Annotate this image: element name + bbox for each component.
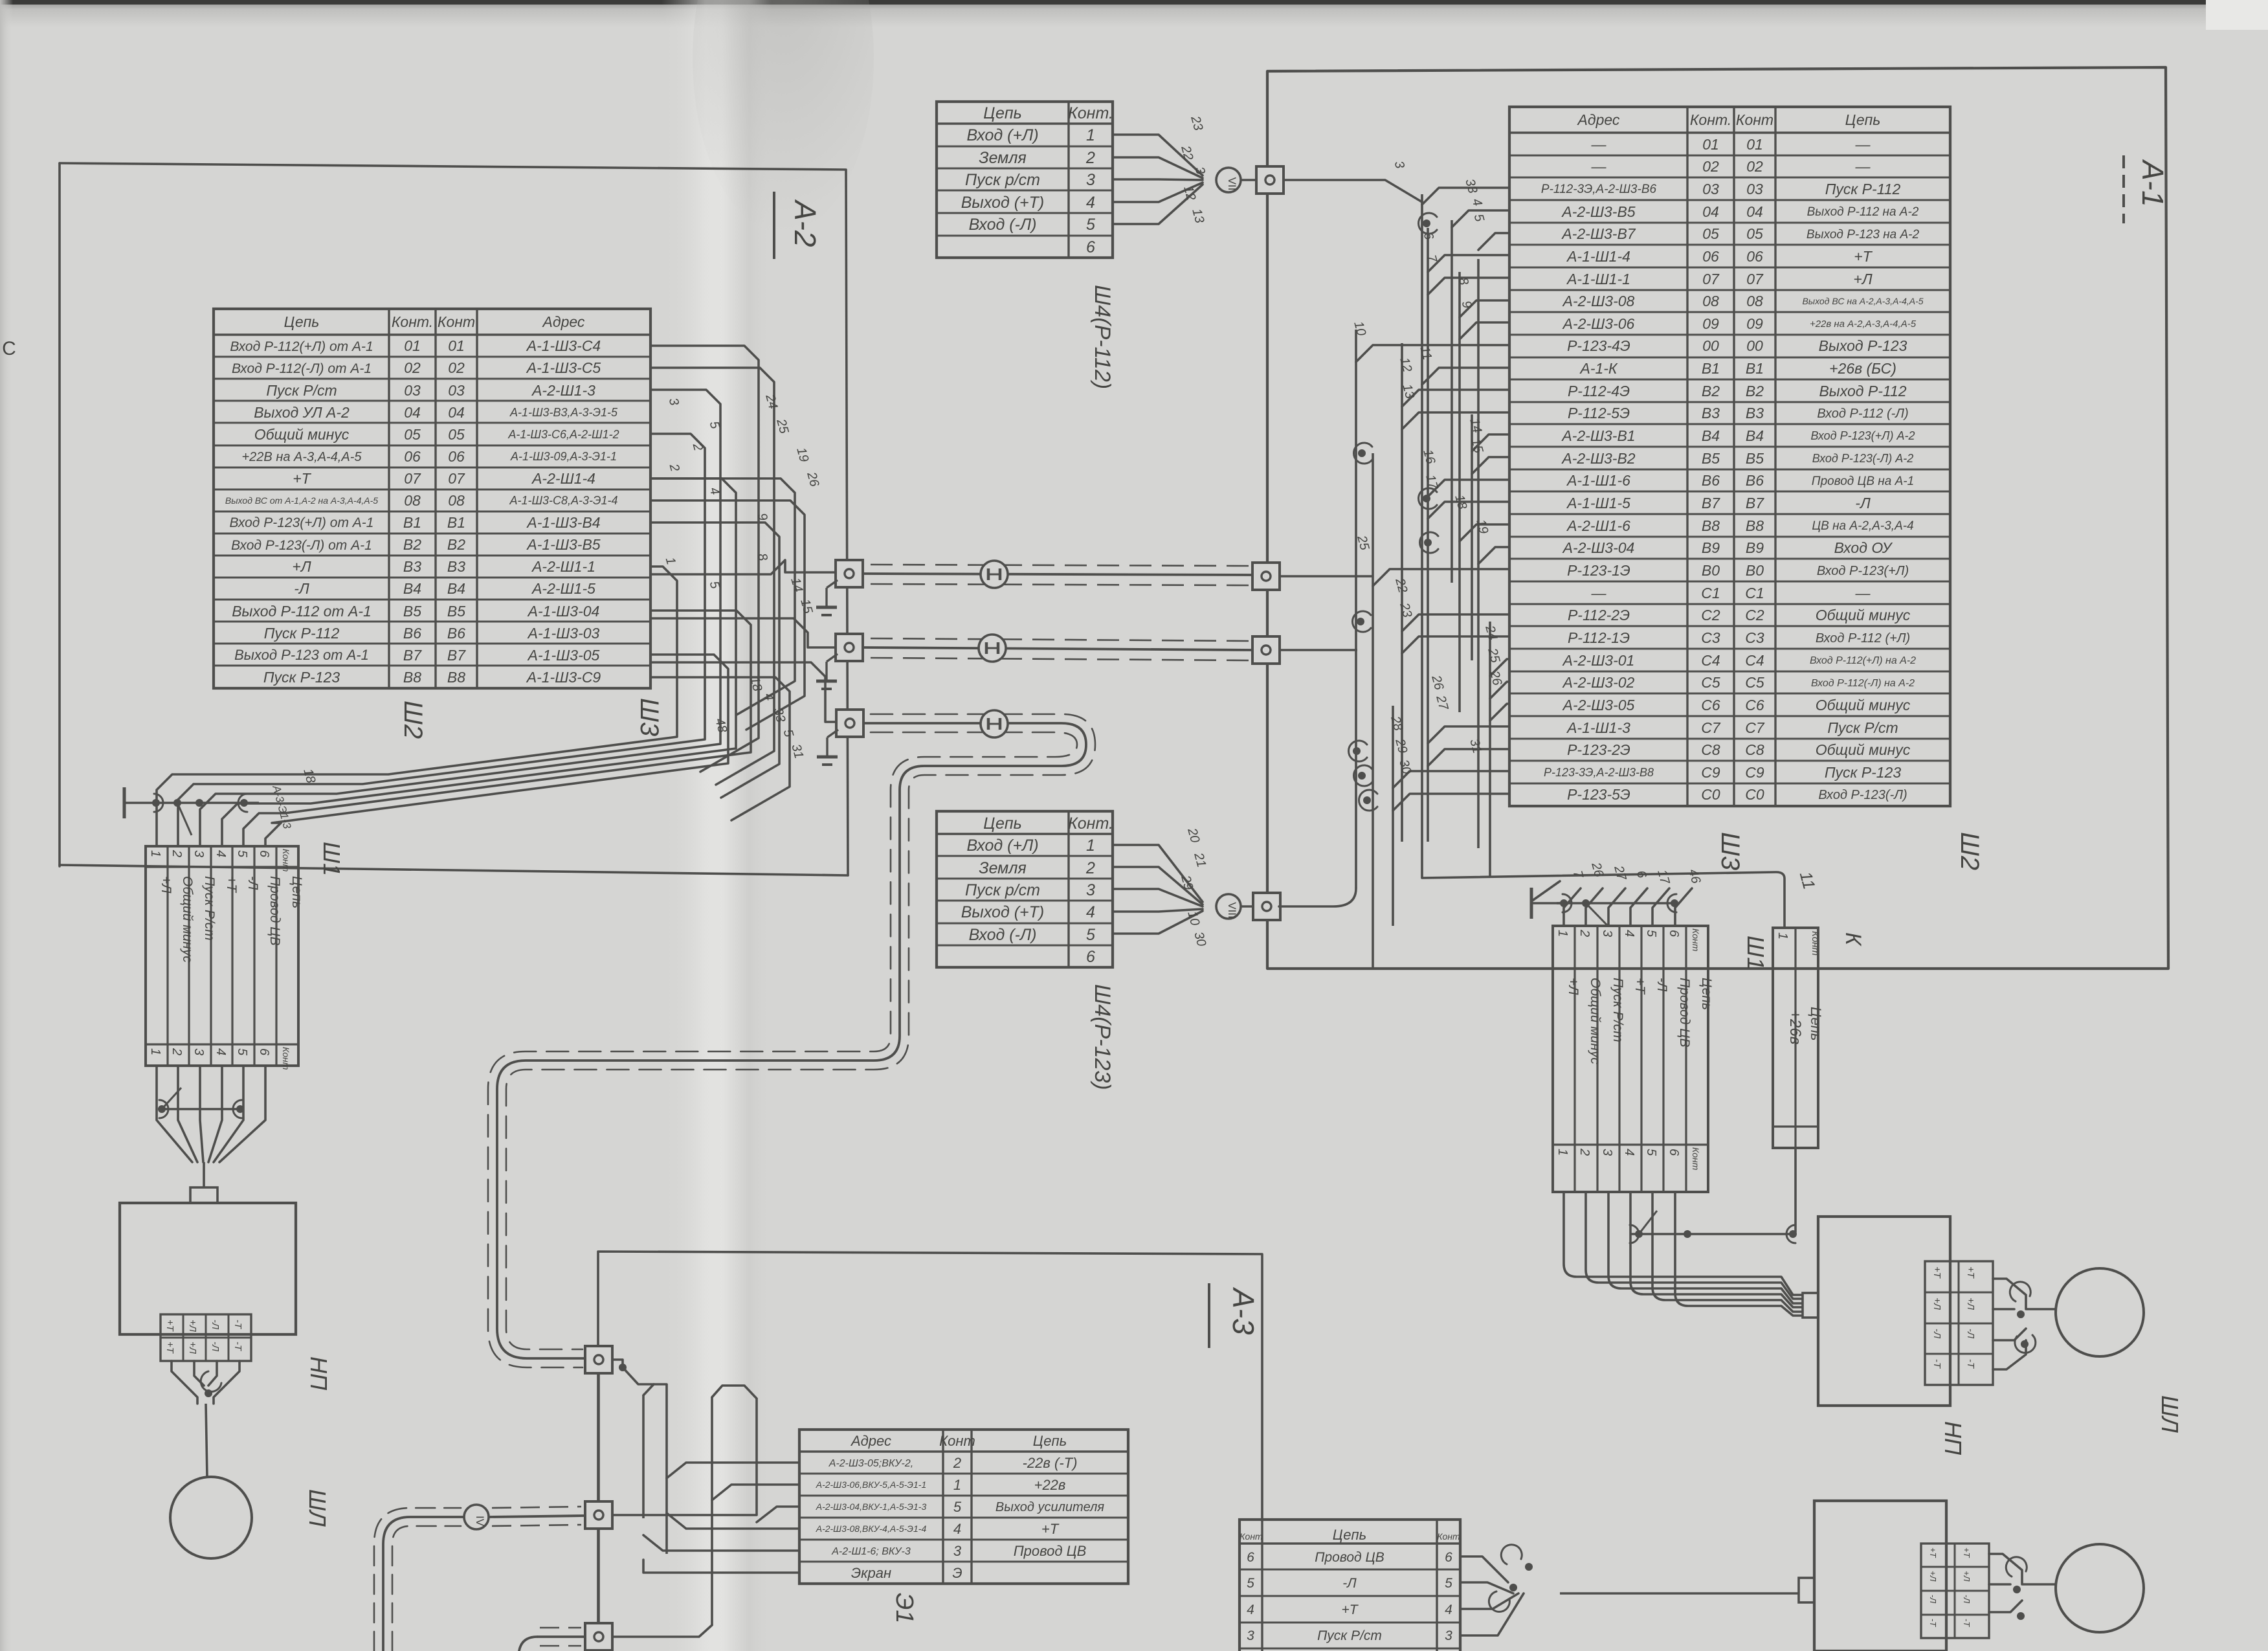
svg-text:А-1-Ш3-05: А-1-Ш3-05: [527, 647, 600, 664]
svg-text:А-1-Ш3-09,А-3-Э1-1: А-1-Ш3-09,А-3-Э1-1: [510, 450, 617, 463]
svg-text:А-1: А-1: [2136, 159, 2170, 207]
svg-text:01: 01: [448, 337, 465, 354]
svg-text:05: 05: [404, 426, 421, 443]
svg-text:+Л: +Л: [1931, 1297, 1942, 1310]
svg-text:6: 6: [1445, 1550, 1452, 1565]
svg-text:07: 07: [448, 470, 465, 487]
svg-text:+Л: +Л: [292, 558, 311, 575]
svg-text:В1: В1: [1746, 360, 1764, 377]
NP box stub (right 1): [1803, 1293, 1818, 1318]
svg-text:Земля: Земля: [979, 859, 1027, 877]
svg-text:ЦВ на А-2,А-3,А-4: ЦВ на А-2,А-3,А-4: [1812, 519, 1913, 533]
svg-text:2: 2: [1577, 1148, 1592, 1156]
svg-text:-Т: -Т: [1931, 1359, 1942, 1369]
svg-text:Р-112-2Э: Р-112-2Э: [1568, 607, 1630, 623]
svg-text:Пуск Р-112: Пуск Р-112: [1825, 181, 1901, 197]
connector square VII on A-1: [1256, 166, 1284, 194]
svg-text:А-1-Ш3-С4: А-1-Ш3-С4: [526, 337, 601, 354]
svg-text:А-1-Ш3-С8,А-3-Э1-4: А-1-Ш3-С8,А-3-Э1-4: [509, 494, 617, 507]
svg-text:-Л: -Л: [1965, 1329, 1976, 1339]
svg-text:А-2-Ш3-08: А-2-Ш3-08: [1562, 293, 1635, 309]
svg-text:4: 4: [953, 1521, 961, 1537]
svg-text:В6: В6: [447, 625, 465, 642]
svg-text:С1: С1: [1745, 585, 1764, 601]
svg-text:В3: В3: [403, 558, 421, 575]
svg-text:А-1-К: А-1-К: [1579, 360, 1618, 377]
svg-text:1: 1: [1086, 837, 1095, 855]
svg-text:Вход (-Л): Вход (-Л): [969, 926, 1037, 944]
svg-text:Ш2: Ш2: [399, 701, 427, 739]
svg-text:Вход Р-112(-Л) от А-1: Вход Р-112(-Л) от А-1: [232, 361, 372, 376]
block A-2 outline: [60, 163, 848, 875]
svg-text:Выход Р-112: Выход Р-112: [1819, 383, 1906, 399]
svg-text:Вход (-Л): Вход (-Л): [969, 216, 1037, 234]
svg-text:В6: В6: [1746, 472, 1764, 489]
svg-text:VIII: VIII: [1226, 902, 1238, 919]
svg-text:Выход Р-123 от А-1: Выход Р-123 от А-1: [234, 647, 369, 663]
svg-text:09: 09: [1746, 315, 1763, 332]
connector table Sh4(R-123): [937, 811, 1113, 967]
svg-text:-Л: -Л: [1928, 1595, 1938, 1603]
svg-text:6: 6: [1086, 948, 1095, 966]
svg-text:Конт: Конт: [438, 313, 475, 330]
svg-text:С6: С6: [1745, 697, 1764, 713]
connector table Sh4(R-112): [937, 102, 1113, 258]
svg-text:Цепь: Цепь: [284, 313, 320, 330]
svg-text:2: 2: [1085, 149, 1095, 167]
svg-text:А-1-Ш1-3: А-1-Ш1-3: [1566, 719, 1630, 736]
wires Sh4(R-123) to coupler VIII: [1113, 845, 1203, 934]
svg-text:А-1-Ш3-С5: А-1-Ш3-С5: [526, 359, 601, 376]
svg-text:07: 07: [1746, 271, 1764, 287]
wires Sh1(A-1) down to NP: [1564, 1192, 1802, 1316]
NP box (right 1): [1818, 1217, 1950, 1406]
svg-text:Выход Р-123: Выход Р-123: [1819, 337, 1907, 354]
jumper with ground on Sh1(A-1): [1531, 888, 1678, 926]
svg-text:04: 04: [1702, 203, 1719, 220]
svg-text:5: 5: [1445, 1576, 1452, 1591]
svg-text:НП: НП: [1940, 1421, 1966, 1455]
svg-text:Провод ЦВ: Провод ЦВ: [1677, 978, 1692, 1047]
connector square run III left: [836, 710, 863, 737]
svg-text:С7: С7: [1701, 719, 1721, 736]
svg-text:+Л: +Л: [187, 1342, 198, 1354]
svg-text:Провод ЦВ: Провод ЦВ: [1315, 1550, 1384, 1565]
svg-text:Ш3: Ш3: [635, 698, 663, 736]
svg-text:C: C: [2, 338, 16, 359]
svg-text:05: 05: [1746, 225, 1763, 242]
svg-text:В7: В7: [1702, 495, 1720, 511]
svg-text:Экран: Экран: [851, 1565, 891, 1581]
NP box stub (left): [190, 1187, 217, 1203]
svg-text:Ш4(Р-112): Ш4(Р-112): [1090, 285, 1115, 389]
connector square V: [585, 1623, 612, 1650]
svg-text:А-2-Ш3-01: А-2-Ш3-01: [1562, 652, 1635, 669]
svg-text:Земля: Земля: [979, 149, 1027, 167]
svg-text:Выход Р-123 на А-2: Выход Р-123 на А-2: [1807, 228, 1920, 241]
svg-text:Пуск р/ст: Пуск р/ст: [965, 171, 1040, 189]
svg-text:4: 4: [1086, 903, 1095, 921]
svg-text:Ш2: Ш2: [1955, 832, 1984, 870]
svg-text:В0: В0: [1702, 562, 1720, 579]
svg-text:3: 3: [953, 1543, 962, 1559]
svg-text:02: 02: [404, 359, 421, 376]
svg-text:07: 07: [1702, 271, 1720, 287]
svg-text:А-2-Ш1-5: А-2-Ш1-5: [531, 580, 595, 597]
svg-text:Вход (+Л): Вход (+Л): [966, 126, 1038, 144]
svg-text:1: 1: [1086, 126, 1095, 144]
svg-text:В9: В9: [1702, 539, 1720, 556]
NP connector grid (right 1): [1925, 1261, 1993, 1385]
svg-text:С2: С2: [1745, 607, 1764, 623]
svg-text:А-2-Ш3-В2: А-2-Ш3-В2: [1561, 450, 1635, 467]
svg-text:Общий минус: Общий минус: [254, 426, 350, 443]
svg-text:ШЛ: ШЛ: [304, 1489, 331, 1527]
svg-text:Выход (+Т): Выход (+Т): [961, 903, 1044, 921]
svg-text:Конт: Конт: [281, 1047, 291, 1070]
label A-1: [2124, 155, 2170, 223]
svg-text:6: 6: [257, 850, 271, 858]
svg-text:Общий минус: Общий минус: [1816, 741, 1911, 758]
svg-text:В3: В3: [1746, 405, 1764, 421]
svg-text:Пуск Р-123: Пуск Р-123: [263, 669, 340, 686]
svg-text:Выход Р-112 от А-1: Выход Р-112 от А-1: [232, 603, 372, 620]
connector table of lower headset: [1240, 1520, 1460, 1651]
svg-text:4: 4: [1622, 930, 1636, 937]
svg-text:+Т: +Т: [293, 470, 311, 487]
svg-text:С9: С9: [1701, 764, 1720, 781]
cable run IV: [374, 1507, 584, 1651]
svg-text:Пуск Р-123: Пуск Р-123: [1825, 764, 1901, 781]
connector square IV: [585, 1501, 612, 1529]
svg-text:5: 5: [1086, 216, 1095, 234]
svg-text:—: —: [1855, 158, 1871, 175]
svg-text:2: 2: [170, 1048, 184, 1055]
connector square run I left: [836, 560, 863, 587]
svg-text:+Л: +Л: [1928, 1571, 1938, 1582]
svg-text:+26в: +26в: [1786, 1010, 1804, 1044]
svg-text:А-1-Ш3-В5: А-1-Ш3-В5: [526, 536, 600, 553]
block A-3 outline: [598, 1252, 1262, 1651]
svg-text:Р-112-4Э: Р-112-4Э: [1568, 383, 1630, 399]
svg-text:В8: В8: [1746, 517, 1764, 534]
svg-text:А-2-Ш3-06: А-2-Ш3-06: [1562, 315, 1635, 332]
wire bundle to NP stub: [203, 1162, 205, 1187]
svg-text:+Т: +Т: [1854, 248, 1873, 265]
svg-text:А-2-Ш3-В1: А-2-Ш3-В1: [1561, 427, 1635, 444]
svg-text:С1: С1: [1701, 585, 1720, 601]
wire run II to A-1: [1280, 649, 1357, 651]
svg-text:-Л: -Л: [210, 1342, 221, 1352]
svg-text:+Т: +Т: [164, 1342, 175, 1354]
coupler III: [981, 710, 1008, 737]
svg-text:Ш3: Ш3: [1716, 832, 1744, 870]
svg-text:Вход Р-123(+Л) от А-1: Вход Р-123(+Л) от А-1: [230, 515, 374, 530]
svg-text:Э: Э: [952, 1565, 962, 1581]
svg-text:В0: В0: [1746, 562, 1764, 579]
svg-text:5: 5: [235, 1048, 249, 1056]
connector table Sh1 of A-1 (rotated): [1553, 926, 1714, 1192]
svg-text:—: —: [1591, 158, 1607, 175]
wire fan from A-2 table to harness verticals and Sh1: [157, 346, 805, 846]
ground at run I left: [816, 580, 838, 615]
svg-text:-Т: -Т: [1928, 1619, 1938, 1627]
svg-text:Р-112-3Э,А-2-Ш3-В6: Р-112-3Э,А-2-Ш3-В6: [1541, 183, 1657, 196]
svg-text:Выход УЛ А-2: Выход УЛ А-2: [254, 404, 350, 421]
harness wires inside A-1: [1356, 188, 1509, 969]
svg-text:С3: С3: [1745, 629, 1764, 646]
connector table Sh3/Sh2 of block A-1: [1509, 107, 1950, 806]
svg-text:В1: В1: [1702, 360, 1720, 377]
svg-text:04: 04: [448, 404, 465, 421]
svg-text:5: 5: [1644, 930, 1658, 938]
svg-text:02: 02: [1702, 158, 1719, 175]
svg-text:1: 1: [953, 1477, 961, 1493]
svg-text:С8: С8: [1745, 741, 1764, 758]
svg-text:1: 1: [148, 850, 162, 857]
connector table E1 of block A-3: [799, 1430, 1128, 1584]
svg-text:Конт.: Конт.: [1690, 111, 1731, 128]
svg-text:+Л: +Л: [1566, 978, 1581, 995]
svg-text:-Л: -Л: [1855, 495, 1871, 511]
svg-text:В4: В4: [1746, 427, 1764, 444]
svg-text:Конт: Конт: [1810, 931, 1821, 956]
cable run II: [863, 638, 1252, 660]
svg-text:Цепь: Цепь: [1699, 978, 1714, 1010]
svg-text:Общий минус: Общий минус: [1816, 607, 1911, 623]
svg-text:Конт.: Конт.: [1068, 814, 1113, 833]
svg-text:С3: С3: [1701, 629, 1720, 646]
cable run V stub: [519, 1628, 584, 1651]
jumper with ground on Sh1(A-2): [124, 787, 259, 835]
svg-text:—: —: [1855, 136, 1871, 153]
svg-text:Цепь: Цепь: [1333, 1527, 1366, 1543]
svg-text:+22в на А-2,А-3,А-4,А-5: +22в на А-2,А-3,А-4,А-5: [1810, 319, 1917, 330]
svg-text:+Т: +Т: [1341, 1602, 1359, 1617]
svg-text:Р-123-4Э: Р-123-4Э: [1567, 337, 1630, 354]
svg-text:Вход Р-112 (+Л): Вход Р-112 (+Л): [1816, 631, 1910, 646]
svg-text:С4: С4: [1701, 652, 1720, 669]
svg-text:Пуск Р/ст: Пуск Р/ст: [1827, 719, 1898, 736]
svg-text:Пуск Р/ст: Пуск Р/ст: [266, 382, 337, 399]
svg-text:6: 6: [257, 1048, 271, 1056]
svg-text:А-2-Ш3-В7: А-2-Ш3-В7: [1561, 225, 1636, 242]
jumper on Sh1(A-2) bottom: [158, 1088, 244, 1118]
svg-text:В2: В2: [1702, 383, 1720, 399]
svg-text:Конт: Конт: [1240, 1531, 1263, 1542]
svg-text:В8: В8: [403, 669, 421, 686]
svg-text:06: 06: [448, 448, 465, 465]
svg-text:-Т: -Т: [1965, 1359, 1976, 1369]
NP connector grid (left): [161, 1314, 251, 1361]
wire ground stem to bus: [1531, 881, 1560, 901]
svg-text:Пуск р/ст: Пуск р/ст: [965, 881, 1040, 899]
svg-text:Вход Р-123(-Л): Вход Р-123(-Л): [1818, 788, 1907, 802]
svg-text:В8: В8: [1702, 517, 1720, 534]
svg-text:06: 06: [1702, 248, 1719, 265]
svg-text:Пуск Р/ст: Пуск Р/ст: [1317, 1628, 1382, 1643]
svg-text:+Л: +Л: [1965, 1297, 1976, 1310]
svg-text:Пуск Р/ст: Пуск Р/ст: [202, 876, 217, 941]
svg-text:Адрес: Адрес: [1577, 111, 1620, 128]
svg-text:+26в (БС): +26в (БС): [1829, 360, 1896, 377]
svg-text:В8: В8: [447, 669, 465, 686]
svg-text:-Л: -Л: [210, 1320, 221, 1330]
svg-text:6: 6: [1667, 930, 1681, 938]
wire square VII to table: [1284, 180, 1422, 202]
svg-text:Вход (+Л): Вход (+Л): [966, 837, 1038, 855]
svg-text:А-1-Ш3-С9: А-1-Ш3-С9: [526, 669, 601, 686]
svg-text:5: 5: [1247, 1576, 1254, 1591]
svg-text:А-1-Ш3-В3,А-3-Э1-5: А-1-Ш3-В3,А-3-Э1-5: [509, 406, 618, 419]
svg-text:-Л: -Л: [1931, 1329, 1942, 1339]
svg-text:-Т: -Т: [232, 1342, 243, 1352]
wire bottom table to NP (right 2): [1560, 1592, 1799, 1595]
svg-text:В3: В3: [1702, 405, 1720, 421]
svg-text:5: 5: [1644, 1149, 1658, 1156]
svg-text:Вход Р-123(-Л) А-2: Вход Р-123(-Л) А-2: [1812, 452, 1914, 465]
svg-text:Конт.: Конт.: [392, 313, 433, 330]
svg-text:01: 01: [404, 337, 421, 354]
svg-text:Провод ЦВ: Провод ЦВ: [1014, 1543, 1087, 1559]
svg-text:01: 01: [1702, 136, 1719, 153]
svg-text:Р-123-1Э: Р-123-1Э: [1567, 562, 1630, 579]
block A-1 outline: [1267, 67, 2168, 969]
svg-text:06: 06: [1746, 248, 1763, 265]
svg-text:В6: В6: [1702, 472, 1720, 489]
svg-text:А-1-Ш3-С6,А-2-Ш1-2: А-1-Ш3-С6,А-2-Ш1-2: [507, 428, 619, 441]
svg-text:Общий минус: Общий минус: [1816, 697, 1911, 713]
svg-text:В5: В5: [1746, 450, 1764, 467]
svg-text:5: 5: [953, 1499, 962, 1515]
svg-text:А-2-Ш3-04: А-2-Ш3-04: [1562, 539, 1635, 556]
svg-text:С8: С8: [1701, 741, 1720, 758]
svg-text:Цепь: Цепь: [289, 876, 304, 908]
svg-text:09: 09: [1702, 315, 1719, 332]
svg-text:4: 4: [1445, 1602, 1452, 1617]
wire run I to A-1: [1280, 575, 1373, 578]
svg-text:+Т: +Т: [1041, 1521, 1060, 1537]
svg-text:В2: В2: [1746, 383, 1764, 399]
svg-text:06: 06: [404, 448, 421, 465]
svg-text:1: 1: [1555, 930, 1570, 937]
wire VIII to A-1: [1241, 905, 1254, 908]
svg-text:Адрес: Адрес: [542, 313, 585, 330]
svg-text:00: 00: [1746, 337, 1763, 354]
vertical link of A-3 squares: [597, 1373, 600, 1501]
connector square run II right: [1252, 636, 1280, 664]
svg-text:В5: В5: [403, 603, 421, 620]
coupler IV: [464, 1505, 489, 1529]
svg-text:6: 6: [1667, 1149, 1681, 1156]
svg-text:Ш4(Р-123): Ш4(Р-123): [1090, 984, 1115, 1090]
svg-text:01: 01: [1746, 136, 1763, 153]
svg-text:В7: В7: [447, 647, 466, 664]
svg-text:—: —: [1591, 585, 1607, 601]
svg-text:С7: С7: [1745, 719, 1765, 736]
shield hooks and dots in A-1 harness: [1349, 213, 1438, 811]
svg-text:3: 3: [1247, 1628, 1254, 1643]
svg-text:+22в: +22в: [1034, 1477, 1066, 1493]
svg-text:С9: С9: [1745, 764, 1764, 781]
NP box (left): [120, 1203, 296, 1334]
fan grid to headset (right 2): [1989, 1554, 2056, 1620]
svg-text:3: 3: [192, 1048, 206, 1055]
svg-text:-Л: -Л: [294, 580, 309, 597]
ground at run III left: [817, 730, 838, 765]
svg-text:А-2-Ш1-1: А-2-Ш1-1: [531, 558, 595, 575]
label A-2: [774, 192, 822, 259]
coupler I: [981, 561, 1008, 588]
svg-text:08: 08: [1746, 293, 1763, 309]
svg-text:4: 4: [1247, 1602, 1254, 1617]
svg-text:Ш1: Ш1: [1742, 936, 1769, 970]
svg-text:Конт: Конт: [1691, 1147, 1701, 1171]
svg-text:4: 4: [214, 850, 228, 857]
harness number labels A-1: [1351, 177, 1504, 776]
headset ShL (left): [170, 1477, 252, 1558]
svg-text:С2: С2: [1701, 607, 1720, 623]
svg-text:Вход Р-112 (-Л): Вход Р-112 (-Л): [1817, 407, 1908, 421]
svg-text:В2: В2: [403, 536, 421, 553]
svg-text:-Л: -Л: [1342, 1576, 1357, 1591]
wires A-3 table to squares: [612, 1360, 799, 1637]
svg-text:А-2: А-2: [788, 199, 822, 247]
svg-text:08: 08: [448, 492, 465, 509]
svg-text:А-2-Ш3-06,ВКУ-5,А-5-Э1-1: А-2-Ш3-06,ВКУ-5,А-5-Э1-1: [816, 1479, 927, 1490]
svg-text:А-2-Ш3-08,ВКУ-4,А-5-Э1-4: А-2-Ш3-08,ВКУ-4,А-5-Э1-4: [816, 1523, 927, 1534]
wire VIII square into A-1: [1279, 888, 1356, 906]
wires Sh1(A-1) up: [1564, 888, 1692, 926]
svg-text:+Т: +Т: [1965, 1266, 1976, 1279]
svg-text:1: 1: [1775, 932, 1790, 939]
svg-text:Ш1: Ш1: [318, 842, 345, 876]
svg-text:НП: НП: [306, 1356, 332, 1391]
svg-text:В5: В5: [1702, 450, 1720, 467]
svg-text:А-1-Ш1-5: А-1-Ш1-5: [1566, 495, 1630, 511]
svg-text:С5: С5: [1745, 674, 1764, 691]
svg-text:Выход ВС на А-2,А-3,А-4,А-5: Выход ВС на А-2,А-3,А-4,А-5: [1802, 296, 1923, 306]
svg-text:-Л: -Л: [1962, 1595, 1972, 1603]
svg-text:+Т: +Т: [1931, 1266, 1942, 1279]
svg-text:02: 02: [1746, 158, 1763, 175]
svg-text:Пуск Р-112: Пуск Р-112: [264, 625, 340, 642]
svg-text:04: 04: [1746, 203, 1763, 220]
wires Sh4(R-112) to coupler VII: [1113, 135, 1203, 224]
svg-text:ШЛ: ШЛ: [2157, 1395, 2183, 1433]
connector square run II left: [836, 634, 863, 661]
svg-text:5: 5: [1086, 926, 1095, 944]
svg-text:А-3: А-3: [1227, 1286, 1260, 1335]
svg-text:Цепь: Цепь: [1033, 1433, 1067, 1449]
svg-text:4: 4: [214, 1048, 228, 1055]
svg-text:—: —: [1855, 585, 1871, 601]
fan grid to headset (right 1): [1993, 1279, 2056, 1369]
coupler VII: [1216, 168, 1241, 192]
connector table Sh1 of A-2 (rotated): [146, 846, 304, 1070]
wire to headset (left): [206, 1404, 207, 1477]
svg-text:К: К: [1841, 932, 1865, 947]
svg-text:1: 1: [148, 1048, 162, 1055]
svg-text:А-2-Ш1-3: А-2-Ш1-3: [531, 382, 595, 399]
svg-text:В2: В2: [447, 536, 465, 553]
svg-text:08: 08: [404, 492, 421, 509]
svg-text:Цепь: Цепь: [1808, 1007, 1824, 1040]
wires bottom table to NP right 2: [1460, 1545, 1533, 1635]
svg-text:1: 1: [1555, 1149, 1570, 1156]
svg-text:2: 2: [1085, 859, 1095, 877]
svg-text:В6: В6: [403, 625, 421, 642]
